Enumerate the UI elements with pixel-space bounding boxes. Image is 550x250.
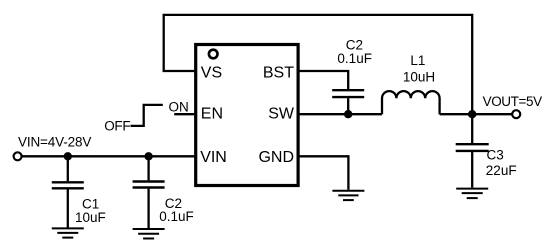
value label C3 (487, 147, 504, 162)
capacitor C2 (input) (133, 156, 165, 228)
svg-text:VIN: VIN (200, 149, 227, 166)
svg-text:VS: VS (201, 65, 222, 82)
wire: EN pin stub (174, 113, 196, 115)
label ON (169, 100, 189, 115)
svg-text:10uH: 10uH (403, 70, 435, 85)
svg-text:C3: C3 (487, 147, 504, 162)
ground (under GND pin) (332, 191, 364, 200)
capacitor C1 (52, 156, 84, 227)
svg-text:EN: EN (201, 106, 223, 123)
pin label VIN (200, 149, 227, 166)
pin label EN (201, 106, 223, 123)
svg-text:10uF: 10uF (75, 210, 106, 225)
svg-text:ON: ON (169, 100, 189, 115)
value label L1 (410, 53, 425, 68)
svg-text:BST: BST (263, 65, 294, 82)
capacitor C3 (456, 144, 489, 187)
wire: VS top feedback loop (VS pin up and over to VOUT node) (164, 15, 473, 144)
wire: GND pin to ground (298, 156, 348, 190)
junction dot at C2 input (144, 152, 152, 160)
value label 0.1uF (bootstrap) (337, 51, 372, 66)
net label VOUT=5V (483, 94, 542, 109)
pin label VS (201, 65, 222, 82)
label OFF (104, 119, 130, 134)
junction dot at SW/bootstrap (344, 110, 352, 118)
switch lever OFF/ON (131, 105, 163, 126)
pin 1 marker circle (209, 50, 218, 59)
wire: SW pin to inductor (298, 113, 382, 115)
ground (under C1) (52, 228, 84, 237)
ground (under C3) (456, 189, 488, 199)
capacitor C2 (bootstrap) (332, 90, 364, 114)
wire: VOUT node to output terminal (472, 113, 512, 115)
net label VIN=4V-28V (18, 135, 91, 150)
pin label SW (268, 106, 295, 123)
value label 10uF (75, 210, 106, 225)
value label C2 (bootstrap) (346, 38, 363, 53)
svg-text:0.1uF: 0.1uF (159, 209, 194, 224)
svg-text:SW: SW (268, 106, 295, 123)
value label 22uF (486, 163, 517, 178)
svg-text:VOUT=5V: VOUT=5V (483, 94, 542, 109)
input terminal VIN (open circle) (14, 152, 22, 160)
inductor L1 (382, 91, 440, 114)
junction dot at VOUT node (468, 110, 476, 118)
IC U1 (regulator body) (196, 45, 298, 186)
ground (under input C2) (133, 229, 165, 239)
pin label BST (263, 65, 294, 82)
svg-text:GND: GND (258, 149, 294, 166)
svg-text:VIN=4V-28V: VIN=4V-28V (18, 135, 91, 150)
svg-text:0.1uF: 0.1uF (337, 51, 372, 66)
value label 0.1uF (159, 209, 194, 224)
junction dot at C1 (64, 152, 72, 160)
value label 10uH (403, 70, 435, 85)
output terminal VOUT (open circle) (512, 110, 520, 118)
wire: BST pin to bootstrap capacitor (298, 71, 348, 89)
svg-text:L1: L1 (410, 53, 425, 68)
wire: inductor to VOUT node (440, 113, 473, 115)
pin label GND (258, 149, 294, 166)
wire: VIN input rail to VIN pin (22, 155, 196, 157)
value label C2 (165, 196, 182, 211)
svg-text:OFF: OFF (104, 119, 130, 134)
svg-text:22uF: 22uF (486, 163, 517, 178)
value label C1 (82, 197, 99, 212)
